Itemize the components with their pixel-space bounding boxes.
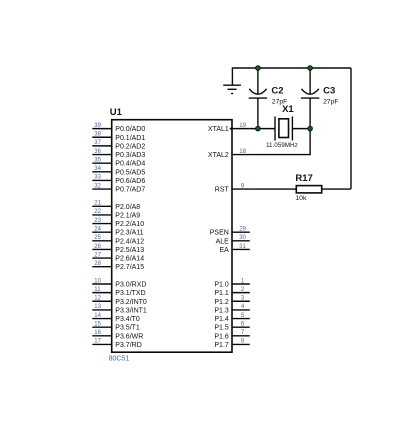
pin 27 P2.6/A14 xyxy=(92,252,144,262)
svg-text:P3.5/T1: P3.5/T1 xyxy=(115,325,140,332)
svg-text:X1: X1 xyxy=(282,104,294,115)
svg-text:P1.6: P1.6 xyxy=(214,333,229,340)
svg-text:P2.5/A13: P2.5/A13 xyxy=(115,247,144,254)
svg-text:36: 36 xyxy=(94,149,101,155)
svg-text:P3.1/TXD: P3.1/TXD xyxy=(115,290,145,297)
svg-text:ALE: ALE xyxy=(216,238,230,245)
svg-text:39: 39 xyxy=(94,123,101,129)
svg-text:RST: RST xyxy=(215,187,230,194)
junction top rail / C2 xyxy=(256,66,261,71)
pin 30 ALE xyxy=(216,235,250,245)
svg-text:11: 11 xyxy=(94,287,101,293)
svg-text:XTAL2: XTAL2 xyxy=(208,152,229,159)
svg-text:34: 34 xyxy=(94,166,101,172)
resistor R17 xyxy=(296,186,321,193)
svg-text:27: 27 xyxy=(94,252,101,258)
svg-text:22: 22 xyxy=(94,209,101,215)
svg-text:P0.0/AD0: P0.0/AD0 xyxy=(115,126,145,133)
pin 4 P1.3 xyxy=(214,304,249,314)
svg-text:P2.6/A14: P2.6/A14 xyxy=(115,256,144,263)
value 80C51 xyxy=(109,356,130,363)
pin 23 P2.2/A10 xyxy=(92,218,144,228)
pin 37 P0.2/AD2 xyxy=(92,140,145,150)
svg-text:11.059MHz: 11.059MHz xyxy=(266,142,298,149)
svg-text:P0.4/AD4: P0.4/AD4 xyxy=(115,161,145,168)
svg-text:P0.1/AD1: P0.1/AD1 xyxy=(115,135,145,142)
svg-text:18: 18 xyxy=(239,149,246,155)
wire R17 right to right rail xyxy=(322,188,351,190)
pin 8 P1.7 xyxy=(214,339,249,349)
svg-text:P1.4: P1.4 xyxy=(214,316,229,323)
pin 22 P2.1/A9 xyxy=(92,209,140,219)
svg-text:35: 35 xyxy=(94,157,101,163)
svg-text:C3: C3 xyxy=(323,86,335,97)
svg-text:15: 15 xyxy=(94,321,101,327)
pin 32 P0.7/AD7 xyxy=(92,183,145,193)
value 27pF (C3) xyxy=(323,98,339,105)
svg-text:P0.2/AD2: P0.2/AD2 xyxy=(115,143,145,150)
pin 25 P2.4/A12 xyxy=(92,235,144,245)
svg-text:P1.5: P1.5 xyxy=(214,325,229,332)
svg-text:24: 24 xyxy=(94,227,101,233)
svg-text:P3.0/RXD: P3.0/RXD xyxy=(115,282,146,289)
svg-text:30: 30 xyxy=(239,235,246,241)
svg-text:P0.3/AD3: P0.3/AD3 xyxy=(115,152,145,159)
pin 5 P1.4 xyxy=(214,313,249,323)
crystal X1 xyxy=(275,117,292,141)
value 27pF (C2) xyxy=(272,98,288,105)
svg-text:P2.7/A15: P2.7/A15 xyxy=(115,264,144,271)
svg-text:19: 19 xyxy=(239,123,246,129)
svg-text:17: 17 xyxy=(94,339,101,345)
svg-text:P2.2/A10: P2.2/A10 xyxy=(115,221,144,228)
label R17 xyxy=(295,173,312,184)
pin 21 P2.0/A8 xyxy=(92,201,140,211)
clock input marker on pin XTAL1 xyxy=(229,127,232,131)
pin 6 P1.5 xyxy=(214,321,249,331)
pin 38 P0.1/AD1 xyxy=(92,132,145,142)
junction XTAL2 / C3 / crystal xyxy=(308,126,313,131)
label X1 xyxy=(282,104,294,115)
pin 29 PSEN xyxy=(210,227,250,237)
pin 15 P3.5/T1 xyxy=(92,321,140,331)
ground symbol xyxy=(223,85,241,93)
svg-text:R17: R17 xyxy=(295,173,312,184)
pin 36 P0.3/AD3 xyxy=(92,149,145,159)
pin 31 EA xyxy=(219,244,249,254)
wire top rail (C2/C3 tops to R17 rail) xyxy=(232,68,351,85)
value 10k xyxy=(295,195,307,202)
svg-text:P2.3/A11: P2.3/A11 xyxy=(115,230,143,237)
pin 16 P3.6/WR xyxy=(92,330,143,340)
svg-text:P2.0/A8: P2.0/A8 xyxy=(115,204,140,211)
pin 17 P3.7/RD xyxy=(92,339,141,349)
svg-text:XTAL1: XTAL1 xyxy=(208,126,229,133)
pin 14 P3.4/T0 xyxy=(92,313,140,323)
svg-text:P0.5/AD5: P0.5/AD5 xyxy=(115,169,145,176)
svg-text:P2.4/A12: P2.4/A12 xyxy=(115,238,144,245)
svg-text:P1.3: P1.3 xyxy=(214,307,229,314)
junction XTAL1 / C2 xyxy=(256,126,261,131)
svg-text:27pF: 27pF xyxy=(323,98,339,105)
capacitor C2 xyxy=(249,68,267,129)
svg-text:38: 38 xyxy=(94,132,101,138)
junction top rail / C3 xyxy=(308,66,313,71)
pin 3 P1.2 xyxy=(214,296,249,306)
pin 9 RST xyxy=(215,183,250,193)
svg-text:14: 14 xyxy=(94,313,101,319)
pin 34 P0.5/AD5 xyxy=(92,166,145,176)
pin 35 P0.4/AD4 xyxy=(92,157,145,167)
pin 28 P2.7/A15 xyxy=(92,261,144,271)
svg-text:P1.2: P1.2 xyxy=(214,299,229,306)
svg-text:33: 33 xyxy=(94,175,101,181)
label C2 xyxy=(271,86,283,97)
svg-text:P3.4/T0: P3.4/T0 xyxy=(115,316,140,323)
pin 10 P3.0/RXD xyxy=(92,278,146,288)
pin 26 P2.5/A13 xyxy=(92,244,144,254)
value 11.059MHz xyxy=(266,142,298,149)
svg-text:C2: C2 xyxy=(271,86,283,97)
pin 18 XTAL2 xyxy=(208,149,250,159)
wire RST pin to R17 left (node RST) xyxy=(250,188,296,190)
wire crystal right to C3 bottom junction xyxy=(292,128,310,130)
svg-text:37: 37 xyxy=(94,140,101,146)
svg-text:32: 32 xyxy=(94,183,101,189)
svg-text:P1.0: P1.0 xyxy=(214,282,229,289)
svg-text:25: 25 xyxy=(94,235,101,241)
pin 33 P0.6/AD6 xyxy=(92,175,145,185)
wire right rail (top rail down to R17) xyxy=(350,68,352,189)
pin 12 P3.2/INT0 xyxy=(92,296,147,306)
pin 2 P1.1 xyxy=(214,287,249,297)
svg-text:P1.1: P1.1 xyxy=(214,290,229,297)
capacitor C3 xyxy=(301,68,319,129)
label U1 xyxy=(110,107,123,118)
pin 7 P1.6 xyxy=(214,330,249,340)
pin 39 P0.0/AD0 xyxy=(92,123,145,133)
svg-text:P0.7/AD7: P0.7/AD7 xyxy=(115,187,145,194)
svg-text:10k: 10k xyxy=(295,195,307,202)
svg-text:12: 12 xyxy=(94,296,101,302)
svg-text:16: 16 xyxy=(94,330,101,336)
svg-text:13: 13 xyxy=(94,304,101,310)
svg-text:P0.6/AD6: P0.6/AD6 xyxy=(115,178,145,185)
svg-text:P3.2/INT0: P3.2/INT0 xyxy=(115,299,147,306)
svg-text:PSEN: PSEN xyxy=(210,230,229,237)
pin 11 P3.1/TXD xyxy=(92,287,145,297)
svg-text:P3.6/WR: P3.6/WR xyxy=(115,333,143,340)
svg-text:EA: EA xyxy=(219,247,229,254)
pin 24 P2.3/A11 xyxy=(92,227,143,237)
svg-text:31: 31 xyxy=(239,244,246,250)
pin 1 P1.0 xyxy=(214,278,249,288)
svg-text:U1: U1 xyxy=(110,107,123,118)
svg-text:P2.1/A9: P2.1/A9 xyxy=(115,212,140,219)
IC U1 body (80C51 microcontroller) xyxy=(112,120,232,353)
svg-text:28: 28 xyxy=(94,261,101,267)
svg-text:21: 21 xyxy=(94,201,101,207)
svg-text:26: 26 xyxy=(94,244,101,250)
svg-text:80C51: 80C51 xyxy=(109,356,130,363)
wire XTAL2 pin to C3/crystal junction (node XTAL2) xyxy=(250,129,310,155)
svg-text:P3.7/RD: P3.7/RD xyxy=(115,342,141,349)
svg-text:P3.3/INT1: P3.3/INT1 xyxy=(115,307,147,314)
pin 13 P3.3/INT1 xyxy=(92,304,147,314)
label C3 xyxy=(323,86,335,97)
svg-text:P1.7: P1.7 xyxy=(214,342,229,349)
pin 19 XTAL1 xyxy=(208,123,250,133)
wire XTAL1 pin to crystal left / C2 bottom (node XTAL1) xyxy=(250,128,275,130)
svg-text:23: 23 xyxy=(94,218,101,224)
svg-text:10: 10 xyxy=(94,278,101,284)
svg-text:29: 29 xyxy=(239,227,246,233)
